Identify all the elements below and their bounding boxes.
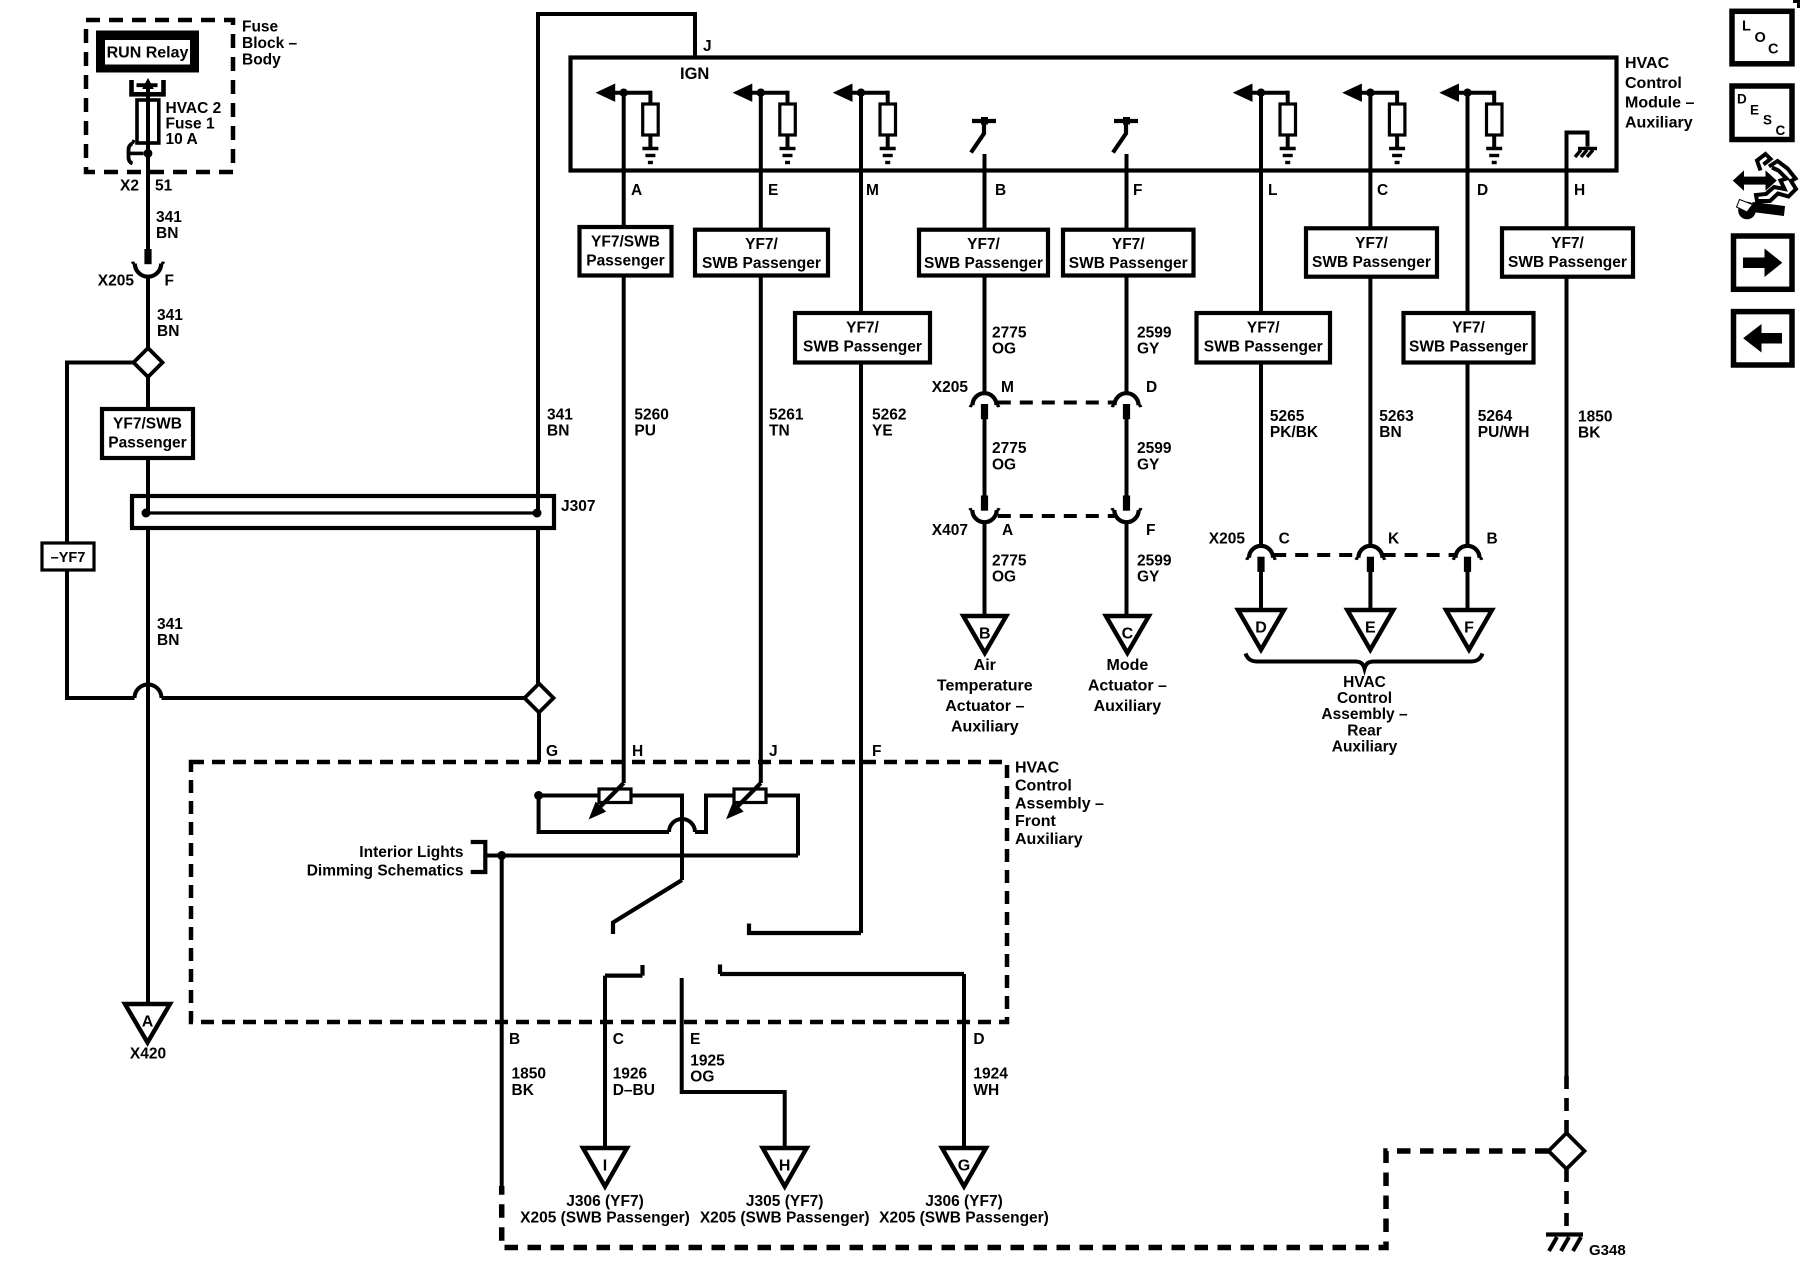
- svg-text:RUN Relay: RUN Relay: [107, 45, 189, 62]
- label 5265 PK/BK: [1270, 408, 1319, 441]
- interior lights dimming tie bracket: [471, 842, 486, 872]
- relay output terminal clip: [132, 79, 164, 99]
- svg-text:B: B: [1487, 531, 1498, 548]
- svg-text:Fuse: Fuse: [242, 19, 279, 36]
- svg-text:BN: BN: [1379, 424, 1401, 441]
- svg-text:A: A: [1002, 522, 1013, 539]
- wire 1924 WH to triangle G: [962, 974, 966, 1148]
- connector triangle F rear assembly: [1446, 610, 1492, 650]
- svg-text:A: A: [631, 182, 642, 199]
- label 341 BN: [547, 407, 573, 440]
- svg-text:Module –: Module –: [1625, 95, 1694, 112]
- svg-text:BK: BK: [1578, 425, 1601, 442]
- label D 1924 WH: [973, 1031, 1008, 1099]
- label J306 YF7 X205 SWB Passenger: [879, 1193, 1049, 1227]
- svg-text:OG: OG: [992, 341, 1016, 358]
- wire 5265 PKBK pin L down to X205: [1259, 363, 1263, 547]
- svg-text:L: L: [1268, 182, 1277, 199]
- svg-text:Auxiliary: Auxiliary: [1094, 698, 1162, 715]
- svg-text:Control: Control: [1337, 690, 1392, 707]
- svg-text:C: C: [1377, 182, 1388, 199]
- connector X205 terminal K: [1356, 546, 1385, 572]
- interior lights feed wire and junction to wire B: [485, 851, 798, 860]
- svg-text:5261: 5261: [769, 407, 804, 424]
- wire 341 BN J307 down to X420: [146, 528, 150, 1004]
- connector X407 terminal F: [1112, 496, 1141, 523]
- label HVAC Control Assembly - Rear Auxiliary: [1321, 674, 1408, 755]
- svg-text:YF7/: YF7/: [745, 236, 778, 253]
- wire 5260 PU pin A down to front assembly pin H: [622, 276, 626, 784]
- label 5263 BN: [1379, 408, 1414, 441]
- label 5261 TN: [769, 407, 804, 440]
- connector X205 terminal M: [970, 393, 999, 419]
- label 5260 PU: [634, 407, 668, 440]
- svg-text:Front: Front: [1015, 813, 1057, 830]
- label 2775 OG: [992, 325, 1027, 358]
- connector triangle A X420: [125, 1004, 170, 1043]
- wire 1850 BK interior lights junction down to dashed ground run: [500, 856, 504, 1187]
- svg-text:G348: G348: [1589, 1242, 1626, 1259]
- left branch under dimmer1 with hop: [539, 796, 734, 833]
- svg-text:X205: X205: [932, 379, 969, 396]
- svg-text:Interior Lights: Interior Lights: [359, 844, 463, 861]
- splice pack J307 bus: [132, 496, 554, 528]
- svg-text:D: D: [1737, 92, 1747, 107]
- svg-text:F: F: [165, 273, 174, 290]
- connector X407 terminal A: [970, 496, 999, 523]
- wire F module to YF7 box: [1125, 154, 1129, 230]
- component box YF7 SWB Passenger wire E: [695, 230, 828, 276]
- splice diamond S1: [134, 348, 163, 377]
- component box YF7 SWB Passenger wire B: [919, 230, 1048, 276]
- svg-text:E: E: [768, 182, 778, 199]
- svg-text:Control: Control: [1625, 75, 1682, 92]
- svg-text:HVAC: HVAC: [1015, 760, 1060, 777]
- svg-text:YE: YE: [872, 423, 893, 440]
- label J305 YF7 X205 SWB Passenger: [700, 1193, 870, 1227]
- svg-text:X205: X205: [98, 273, 135, 290]
- label 2775 OG: [992, 440, 1027, 473]
- splice diamond S2: [525, 684, 554, 713]
- svg-text:341: 341: [547, 407, 573, 424]
- svg-text:51: 51: [155, 178, 173, 195]
- wire 1850 BK pin H down long run: [1565, 277, 1569, 1076]
- connector triangle C mode actuator: [1106, 616, 1149, 653]
- label F: [1146, 522, 1155, 539]
- svg-text:X205: X205: [1209, 531, 1246, 548]
- svg-text:C: C: [613, 1031, 624, 1048]
- wire branch to -YF7: [67, 363, 134, 544]
- svg-text:J306 (YF7): J306 (YF7): [925, 1193, 1003, 1210]
- svg-text:X2: X2: [120, 178, 139, 195]
- dashed connector tie X205 K to B: [1383, 553, 1456, 557]
- wire X205 K to triangle E: [1368, 571, 1372, 610]
- svg-text:341: 341: [157, 307, 183, 324]
- svg-text:2775: 2775: [992, 440, 1027, 457]
- svg-text:OG: OG: [992, 569, 1016, 586]
- svg-text:S: S: [1763, 113, 1772, 128]
- wire L module to YF7 box: [1259, 93, 1263, 313]
- label J at module pin: [703, 38, 712, 55]
- svg-text:BN: BN: [547, 423, 569, 440]
- connector X205 terminal B: [1453, 546, 1482, 572]
- label IGN: [680, 65, 709, 83]
- wire 1926 D-BU contact to triangle I: [603, 976, 607, 1148]
- label C 1926 D-BU: [613, 1031, 655, 1099]
- icon box back arrow: [1734, 312, 1793, 365]
- connector triangle I: [583, 1148, 627, 1187]
- HVAC control assembly front auxiliary dashed box: [191, 762, 1007, 1022]
- wire F front assembly contact: [749, 924, 861, 934]
- svg-text:BK: BK: [512, 1082, 535, 1099]
- component box YF7 SWB Passenger wire F: [1063, 230, 1194, 276]
- svg-text:YF7/: YF7/: [846, 320, 879, 337]
- label X420: [130, 1046, 166, 1063]
- svg-text:Dimming Schematics: Dimming Schematics: [307, 863, 464, 880]
- svg-text:J306 (YF7): J306 (YF7): [566, 1193, 644, 1210]
- connector X205 terminal D: [1112, 393, 1141, 419]
- svg-text:Control: Control: [1015, 777, 1072, 794]
- svg-text:D: D: [1477, 182, 1488, 199]
- svg-text:HVAC: HVAC: [1343, 674, 1386, 691]
- connector X205 terminal C: [1247, 546, 1276, 572]
- svg-text:X420: X420: [130, 1046, 166, 1063]
- wire J307 down to splice S2: [536, 528, 540, 684]
- svg-text:K: K: [1388, 531, 1400, 548]
- svg-text:YF7/: YF7/: [1112, 236, 1145, 253]
- svg-text:5262: 5262: [872, 407, 906, 424]
- svg-text:M: M: [866, 182, 879, 199]
- wire A module to YF7 box: [622, 93, 626, 227]
- wire X205 B to triangle F: [1466, 571, 1470, 610]
- component box YF7 SWB Passenger wire M: [795, 313, 930, 363]
- wiper output to switch contact: [613, 880, 682, 934]
- svg-text:PU: PU: [634, 423, 656, 440]
- svg-text:Temperature: Temperature: [937, 678, 1033, 695]
- svg-text:J305 (YF7): J305 (YF7): [746, 1193, 824, 1210]
- wire 341 BN to splice: [146, 278, 150, 349]
- svg-text:SWB Passenger: SWB Passenger: [1069, 255, 1188, 272]
- svg-text:C: C: [1768, 42, 1779, 58]
- svg-text:5260: 5260: [634, 407, 668, 424]
- icon schematic reference arrows and wrench: [1734, 154, 1797, 219]
- svg-text:PK/BK: PK/BK: [1270, 424, 1319, 441]
- switch contact for wire C: [605, 965, 643, 976]
- svg-text:C: C: [1279, 531, 1290, 548]
- label Interior Lights Dimming Schematics: [307, 844, 464, 880]
- svg-text:X407: X407: [932, 522, 968, 539]
- svg-text:BN: BN: [157, 632, 179, 649]
- module pin letters A E M B F L C D H: [631, 182, 1585, 199]
- wire 2775 OG X407 to actuator: [983, 524, 987, 616]
- wire 5264 PUWH pin D down to X205: [1466, 363, 1470, 547]
- svg-text:PU/WH: PU/WH: [1478, 424, 1530, 441]
- svg-text:H: H: [632, 743, 643, 760]
- svg-text:SWB Passenger: SWB Passenger: [1409, 339, 1528, 356]
- svg-text:J: J: [769, 743, 778, 760]
- svg-text:Auxiliary: Auxiliary: [1015, 831, 1083, 848]
- svg-text:SWB Passenger: SWB Passenger: [702, 255, 821, 272]
- svg-text:2599: 2599: [1137, 440, 1172, 457]
- module switch for pin B: [971, 117, 996, 153]
- svg-text:1926: 1926: [613, 1066, 648, 1083]
- svg-text:Passenger: Passenger: [108, 435, 186, 452]
- svg-text:B: B: [979, 626, 991, 643]
- wire dimmer1 to dimmer2 chain: [631, 796, 682, 881]
- svg-text:SWB Passenger: SWB Passenger: [1204, 339, 1323, 356]
- label 2775 OG: [992, 552, 1027, 585]
- label 5262 YE: [872, 407, 906, 440]
- wire dimmer2 output to interior lights feed: [766, 796, 798, 856]
- svg-text:YF7/: YF7/: [967, 236, 1000, 253]
- svg-text:G: G: [958, 1158, 970, 1175]
- svg-text:Auxiliary: Auxiliary: [1332, 738, 1398, 755]
- label 341 BN: [156, 209, 182, 242]
- label 2599 GY: [1137, 552, 1172, 585]
- svg-text:J: J: [703, 38, 712, 55]
- svg-text:SWB Passenger: SWB Passenger: [803, 339, 922, 356]
- connector triangle E rear assembly: [1347, 610, 1393, 650]
- wire 2599 GY X205 to X407: [1125, 419, 1129, 496]
- wire splice S2 to front assembly pin G: [537, 713, 541, 763]
- label E 1925 OG: [690, 1031, 725, 1086]
- brace HVAC control assembly rear auxiliary: [1246, 654, 1483, 669]
- svg-text:H: H: [779, 1158, 791, 1175]
- svg-text:5265: 5265: [1270, 408, 1305, 425]
- component box YF7 SWB Passenger wire D: [1404, 313, 1534, 363]
- module internal ground for pin H: [1567, 133, 1598, 171]
- svg-text:Assembly –: Assembly –: [1015, 795, 1104, 812]
- svg-text:OG: OG: [992, 456, 1016, 473]
- svg-text:D–BU: D–BU: [613, 1082, 655, 1099]
- module driver for pin C: arrow resistor ground: [1343, 84, 1405, 162]
- svg-text:F: F: [1133, 182, 1142, 199]
- HVAC control module auxiliary box: [571, 58, 1617, 171]
- svg-text:Air: Air: [974, 657, 996, 674]
- label 1850 BK: [1578, 409, 1612, 442]
- svg-text:1925: 1925: [690, 1052, 725, 1069]
- svg-text:BN: BN: [156, 225, 178, 242]
- label Fuse Block - Body: [242, 19, 298, 69]
- svg-text:X205 (SWB Passenger): X205 (SWB Passenger): [700, 1210, 870, 1227]
- svg-text:Rear: Rear: [1347, 722, 1381, 739]
- wire splice S1 down to YF7/SWB box: [146, 377, 150, 409]
- module driver for pin M: arrow resistor ground: [834, 84, 896, 162]
- wire 341 BN from J307 up and over to module pin J: [538, 14, 695, 513]
- svg-text:J307: J307: [561, 498, 595, 515]
- svg-text:D: D: [1255, 620, 1267, 637]
- label X205 M: [932, 379, 1014, 396]
- svg-text:Assembly –: Assembly –: [1321, 706, 1408, 723]
- svg-text:Actuator –: Actuator –: [945, 698, 1024, 715]
- dashed wire diamond to G348: [1564, 1169, 1569, 1232]
- svg-text:B: B: [995, 182, 1006, 199]
- svg-text:GY: GY: [1137, 569, 1160, 586]
- svg-text:E: E: [690, 1031, 700, 1048]
- dashed ground path from diamond to front assembly wire B: [502, 1151, 1549, 1248]
- svg-text:F: F: [872, 743, 881, 760]
- svg-text:Passenger: Passenger: [586, 253, 664, 270]
- svg-text:341: 341: [156, 209, 182, 226]
- label 341 BN: [157, 307, 183, 340]
- wire 2775 OG pin B to X205: [983, 276, 987, 394]
- dashed connector tie X205 M to D: [998, 401, 1115, 405]
- label J307: [561, 498, 595, 515]
- svg-text:Auxiliary: Auxiliary: [1625, 114, 1693, 131]
- svg-text:YF7/: YF7/: [1452, 320, 1485, 337]
- svg-text:5263: 5263: [1379, 408, 1414, 425]
- svg-text:Block –: Block –: [242, 35, 298, 52]
- connector triangle D rear assembly: [1238, 610, 1284, 650]
- switch contact for wire D: [720, 965, 964, 975]
- fuse block body dashed box: [86, 20, 233, 172]
- svg-text:2599: 2599: [1137, 552, 1172, 569]
- svg-text:F: F: [1146, 522, 1155, 539]
- label 2599 GY: [1137, 325, 1172, 358]
- splice diamond S3 ground distribution: [1549, 1133, 1585, 1169]
- svg-text:SWB Passenger: SWB Passenger: [924, 255, 1043, 272]
- svg-text:YF7/: YF7/: [1355, 235, 1388, 252]
- svg-text:M: M: [1001, 379, 1014, 396]
- svg-text:1924: 1924: [973, 1066, 1008, 1083]
- module driver for pin L: arrow resistor ground: [1234, 84, 1296, 162]
- svg-text:YF7/SWB: YF7/SWB: [113, 416, 182, 433]
- component box YF7 SWB Passenger wire L: [1197, 313, 1331, 363]
- potentiometer dimmer 2: [734, 789, 766, 803]
- svg-text:D: D: [1146, 379, 1157, 396]
- connector triangle B air temperature actuator: [963, 616, 1006, 653]
- label Mode Actuator - Auxiliary: [1088, 657, 1167, 715]
- label 5264 PU/WH: [1478, 408, 1530, 441]
- icon box DESC: [1732, 86, 1792, 140]
- svg-text:2775: 2775: [992, 552, 1027, 569]
- svg-text:2599: 2599: [1137, 325, 1172, 342]
- svg-text:O: O: [1755, 30, 1766, 46]
- svg-text:F: F: [1464, 620, 1474, 637]
- wire H module to YF7 box: [1565, 171, 1569, 229]
- svg-text:L: L: [1742, 19, 1751, 35]
- wire M module to YF7 box: [859, 93, 863, 313]
- wire 341 BN from fuse block to X205: [146, 153, 150, 249]
- label HVAC Control Module - Auxiliary: [1625, 55, 1694, 131]
- label X205 F: [98, 273, 174, 290]
- svg-text:Mode: Mode: [1107, 657, 1149, 674]
- svg-text:GY: GY: [1137, 456, 1160, 473]
- wire B module to YF7 box: [983, 154, 987, 230]
- label HVAC 2 Fuse 1 10 A: [166, 100, 222, 148]
- wire from -YF7 to splice S2 with hop over vertical wire: [67, 570, 524, 698]
- label 341 BN: [157, 616, 183, 649]
- label X407 A: [932, 522, 1013, 539]
- wiper arrow from pin J through dimmer 2: [727, 783, 761, 818]
- svg-text:I: I: [603, 1158, 607, 1175]
- label 2599 GY: [1137, 440, 1172, 473]
- label G348: [1589, 1242, 1626, 1259]
- svg-text:IGN: IGN: [680, 65, 709, 83]
- svg-text:HVAC: HVAC: [1625, 55, 1670, 72]
- dashed connector tie X407 A to F: [998, 514, 1115, 518]
- component box YF7/SWB Passenger wire A: [580, 227, 672, 276]
- svg-text:C: C: [1122, 626, 1134, 643]
- svg-text:Actuator –: Actuator –: [1088, 678, 1167, 695]
- svg-text:341: 341: [157, 616, 183, 633]
- label HVAC Control Assembly - Front Auxiliary: [1015, 760, 1104, 849]
- wire X205 C to triangle D: [1259, 571, 1263, 610]
- front assembly pin letters G H J F: [546, 743, 881, 760]
- wiper arrow from pin H through dimmer 1: [590, 783, 624, 819]
- wire into J307: [146, 458, 150, 513]
- svg-text:YF7/: YF7/: [1247, 320, 1280, 337]
- svg-text:X205 (SWB Passenger): X205 (SWB Passenger): [879, 1210, 1049, 1227]
- dashed wire to splice diamond: [1564, 1076, 1569, 1133]
- label D: [1146, 379, 1157, 396]
- module switch for pin F: [1113, 117, 1138, 153]
- svg-text:2775: 2775: [992, 325, 1027, 342]
- module driver for pin D: arrow resistor ground: [1441, 84, 1503, 162]
- svg-text:E: E: [1365, 620, 1376, 637]
- svg-text:E: E: [1750, 103, 1759, 118]
- wire C module to YF7 box: [1368, 93, 1372, 229]
- wire 5261 TN pin E down to front assembly pin J: [759, 276, 763, 784]
- wire 1925 OG to triangle H: [682, 978, 785, 1148]
- connector triangle G: [942, 1148, 986, 1187]
- svg-text:GY: GY: [1137, 341, 1160, 358]
- wire 5263 BN pin C down to X205: [1368, 277, 1372, 546]
- svg-text:5264: 5264: [1478, 408, 1513, 425]
- svg-text:B: B: [509, 1031, 520, 1048]
- wire 2775 OG X205 to X407: [983, 419, 987, 496]
- wire D module to YF7 box: [1466, 93, 1470, 313]
- connector X205 terminal F: [132, 249, 163, 277]
- svg-text:Body: Body: [242, 51, 281, 68]
- icon box forward arrow: [1734, 236, 1793, 289]
- fuse F1 HVAC 2 Fuse 1 10A: [137, 100, 159, 143]
- component box YF7 SWB Passenger wire H: [1502, 228, 1633, 276]
- connector triangle H: [763, 1148, 807, 1187]
- svg-text:BN: BN: [157, 323, 179, 340]
- potentiometer dimmer 1: [599, 789, 631, 803]
- svg-text:YF7/SWB: YF7/SWB: [591, 234, 660, 251]
- svg-text:1850: 1850: [512, 1066, 546, 1083]
- module driver for pin A: arrow resistor ground: [597, 84, 659, 162]
- dashed connector tie X205 C to K: [1273, 553, 1358, 557]
- svg-text:1850: 1850: [1578, 409, 1612, 426]
- component box -YF7: [42, 543, 94, 570]
- svg-text:YF7/: YF7/: [1551, 235, 1584, 252]
- svg-text:C: C: [1776, 123, 1786, 138]
- junction pin G to dimmer chain: [534, 791, 599, 800]
- svg-text:D: D: [973, 1031, 984, 1048]
- svg-text:WH: WH: [973, 1082, 999, 1099]
- svg-text:SWB Passenger: SWB Passenger: [1312, 254, 1431, 271]
- svg-text:OG: OG: [690, 1069, 714, 1086]
- wire 2599 GY X407 to actuator: [1125, 524, 1129, 616]
- ground G348 symbol: [1546, 1235, 1583, 1252]
- component box YF7/SWB Passenger left: [102, 409, 193, 458]
- svg-text:X205 (SWB Passenger): X205 (SWB Passenger): [520, 1210, 690, 1227]
- svg-text:SWB Passenger: SWB Passenger: [1508, 254, 1627, 271]
- label X2 51: [120, 178, 173, 195]
- label B 1850 BK: [509, 1031, 546, 1099]
- module driver for pin E: arrow resistor ground: [734, 84, 796, 162]
- icon box LOC: [1732, 11, 1792, 64]
- svg-text:Auxiliary: Auxiliary: [951, 719, 1019, 736]
- wire 2599 GY pin F to X205: [1125, 276, 1129, 394]
- svg-text:A: A: [142, 1014, 154, 1031]
- svg-text:10 A: 10 A: [166, 131, 198, 148]
- label Air Temperature Actuator - Auxiliary: [937, 657, 1033, 736]
- svg-text:–YF7: –YF7: [51, 550, 86, 566]
